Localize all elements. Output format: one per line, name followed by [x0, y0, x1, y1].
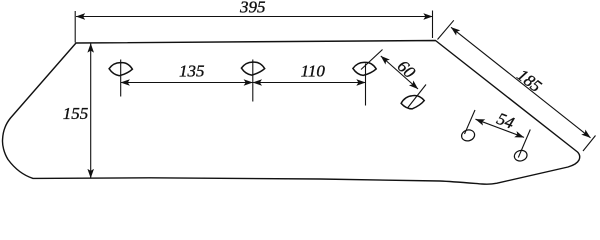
hole H1 (countersunk, eye shape)	[109, 63, 132, 76]
extension tick top of dimension 185	[438, 20, 454, 39]
dimension line 110	[253, 82, 366, 84]
extension line left of dimension 395	[74, 11, 76, 43]
svg-text:395: 395	[239, 0, 266, 17]
axis line hole H1	[120, 60, 122, 97]
hole H4 (countersunk, eye shape, tilted)	[400, 94, 425, 110]
hole H5 (round)	[460, 128, 476, 142]
slash extension line hole H5	[465, 110, 476, 134]
hole H3 (countersunk, eye shape)	[353, 62, 376, 75]
axis line hole H3	[365, 64, 367, 106]
slash extension line hole H6	[518, 130, 530, 158]
extension tick bottom of dimension 185	[583, 136, 596, 152]
svg-text:60: 60	[394, 56, 420, 82]
dimension line 60	[381, 56, 418, 89]
axis line hole H2	[252, 60, 254, 102]
hole H6 (round)	[513, 149, 528, 162]
dimension line 155	[90, 44, 92, 179]
slash extension line hole H3	[361, 50, 383, 70]
dimension line 135	[121, 82, 253, 84]
svg-text:155: 155	[63, 104, 89, 123]
part outline	[2, 41, 579, 185]
svg-text:110: 110	[301, 62, 326, 81]
extension line right of dimension 395	[432, 11, 434, 39]
dimension line 395	[76, 16, 433, 18]
dimension line 54	[476, 119, 525, 137]
slash extension line hole H4	[408, 85, 427, 109]
svg-text:185: 185	[513, 65, 545, 96]
hole H2 (countersunk, eye shape)	[241, 62, 264, 75]
svg-text:135: 135	[179, 62, 205, 81]
dimension line 185	[451, 27, 591, 138]
svg-text:54: 54	[494, 109, 517, 133]
